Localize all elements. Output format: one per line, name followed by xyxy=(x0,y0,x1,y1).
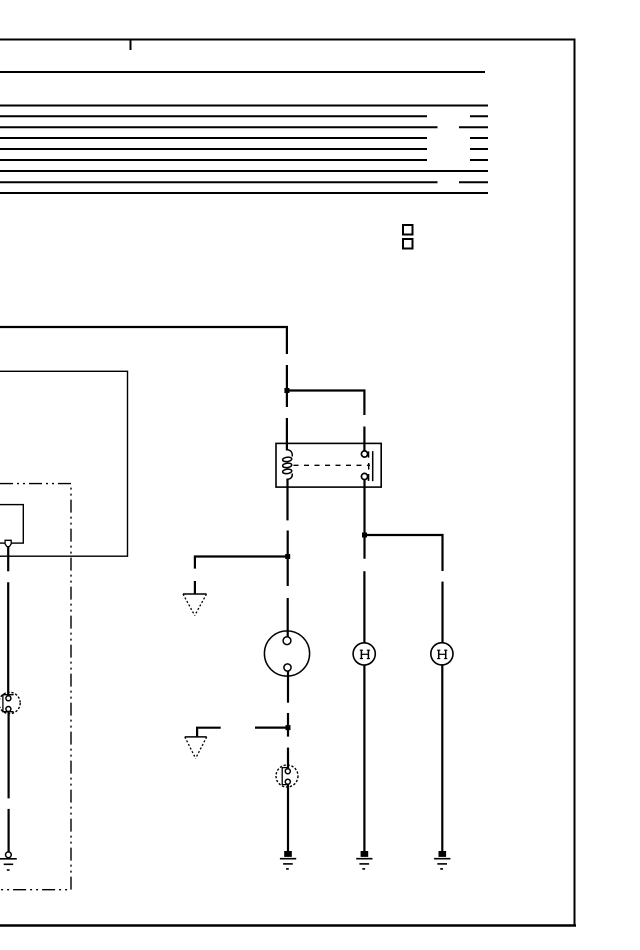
bus wire 6 xyxy=(0,148,488,150)
lamp H1 xyxy=(353,643,375,665)
terminal T2 xyxy=(5,540,11,546)
ground terminal square G3 xyxy=(284,851,292,857)
bus wire 10 xyxy=(0,192,488,194)
wire pump segment 4 xyxy=(8,809,10,852)
bus wire 2 xyxy=(0,105,488,107)
relay contact pin 1 tab xyxy=(368,451,370,457)
connector C1 terminal top xyxy=(6,696,11,701)
node junction C xyxy=(286,725,291,730)
relay U1 box xyxy=(276,443,381,487)
bus wire 9 xyxy=(0,181,488,183)
bus wire 4 xyxy=(0,126,488,128)
wire relay contact feed segment xyxy=(363,427,365,452)
connector C2 terminal top xyxy=(285,769,290,774)
node junction B xyxy=(285,554,290,559)
connector C2 dashed circle xyxy=(276,765,298,787)
wire branch to relay contact xyxy=(287,391,366,416)
bus wire 8 xyxy=(0,170,488,172)
relay contact pin 2 circle xyxy=(361,473,367,479)
wire to connector C2 xyxy=(287,748,289,769)
ground G6 bars xyxy=(0,859,17,870)
ground terminal square G4 xyxy=(361,851,369,857)
ignition coil terminal bottom xyxy=(284,664,291,671)
wire relay output to H1 xyxy=(363,480,365,559)
wire coil secondary segment 1 xyxy=(287,671,289,703)
relay actuator cross xyxy=(368,463,370,470)
wire H1 to ground xyxy=(363,665,365,851)
bus wire 1 xyxy=(0,71,485,73)
wire to ignition coil xyxy=(287,598,289,637)
wire feed vertical segment 3 xyxy=(286,418,288,451)
ground arrow G2 xyxy=(185,737,207,759)
wire H2 to ground xyxy=(441,665,443,852)
ground ring terminal xyxy=(5,852,11,858)
fuel pump inner box xyxy=(0,505,23,543)
connector C1 terminal bottom xyxy=(6,707,11,712)
ground terminal square G5 xyxy=(439,851,447,857)
fuel unit outer box xyxy=(0,371,128,556)
connector C1 bracket xyxy=(3,695,14,712)
wire connector C2 to ground xyxy=(287,785,289,852)
border top xyxy=(0,39,576,41)
border right xyxy=(574,39,576,927)
enclosure dash-dot boundary xyxy=(0,484,71,890)
wire feed vertical segment 1 xyxy=(286,326,288,354)
connector C1 dashed circle xyxy=(0,692,20,713)
bus wire 7 xyxy=(0,159,488,161)
ignition coil T1 circle xyxy=(264,631,309,676)
wire ground branch 2 stub xyxy=(255,726,288,728)
wire feed horizontal xyxy=(0,326,286,328)
ground G5 bars xyxy=(434,859,450,869)
wire ground branch 1 segment 2 xyxy=(194,581,196,594)
connector square 2 xyxy=(403,239,413,249)
wire to H1 lamp xyxy=(363,571,365,643)
wire coil secondary segment 2 xyxy=(287,713,289,737)
wire coil output segment 1 xyxy=(286,479,288,521)
wire feed vertical segment 2 xyxy=(286,365,288,407)
relay coil xyxy=(282,450,292,480)
border tick mark xyxy=(130,39,132,50)
wire ground branch 2 left piece xyxy=(197,727,221,737)
connector C2 terminal bottom xyxy=(285,779,290,784)
ignition coil terminal top xyxy=(283,637,291,645)
wire coil output segment 2 xyxy=(287,531,289,587)
wire to H2 lamp xyxy=(441,582,443,644)
relay dashed actuator line xyxy=(294,464,371,466)
wire branch to H2 xyxy=(365,535,444,571)
ground arrow G1 xyxy=(183,594,207,616)
relay switch bar xyxy=(372,451,374,481)
relay contact pin 1 circle xyxy=(361,451,367,457)
wire pump segment 3 xyxy=(8,712,10,799)
bus wire 3 xyxy=(0,115,488,117)
wire pump segment 1 xyxy=(7,547,9,572)
connector C2 bracket xyxy=(282,768,289,785)
ground G4 bars xyxy=(356,859,372,869)
wire ground branch 1 xyxy=(195,555,288,568)
node junction A xyxy=(284,388,289,393)
connector square 1 xyxy=(403,225,413,235)
border bottom xyxy=(0,924,576,926)
node junction D xyxy=(362,533,367,538)
lamp H2 xyxy=(431,643,453,665)
wire pump segment 2 xyxy=(7,582,9,695)
ground G3 bars xyxy=(280,859,296,869)
relay contact pin 2 tab xyxy=(368,474,370,481)
bus wire 5 xyxy=(0,137,488,139)
